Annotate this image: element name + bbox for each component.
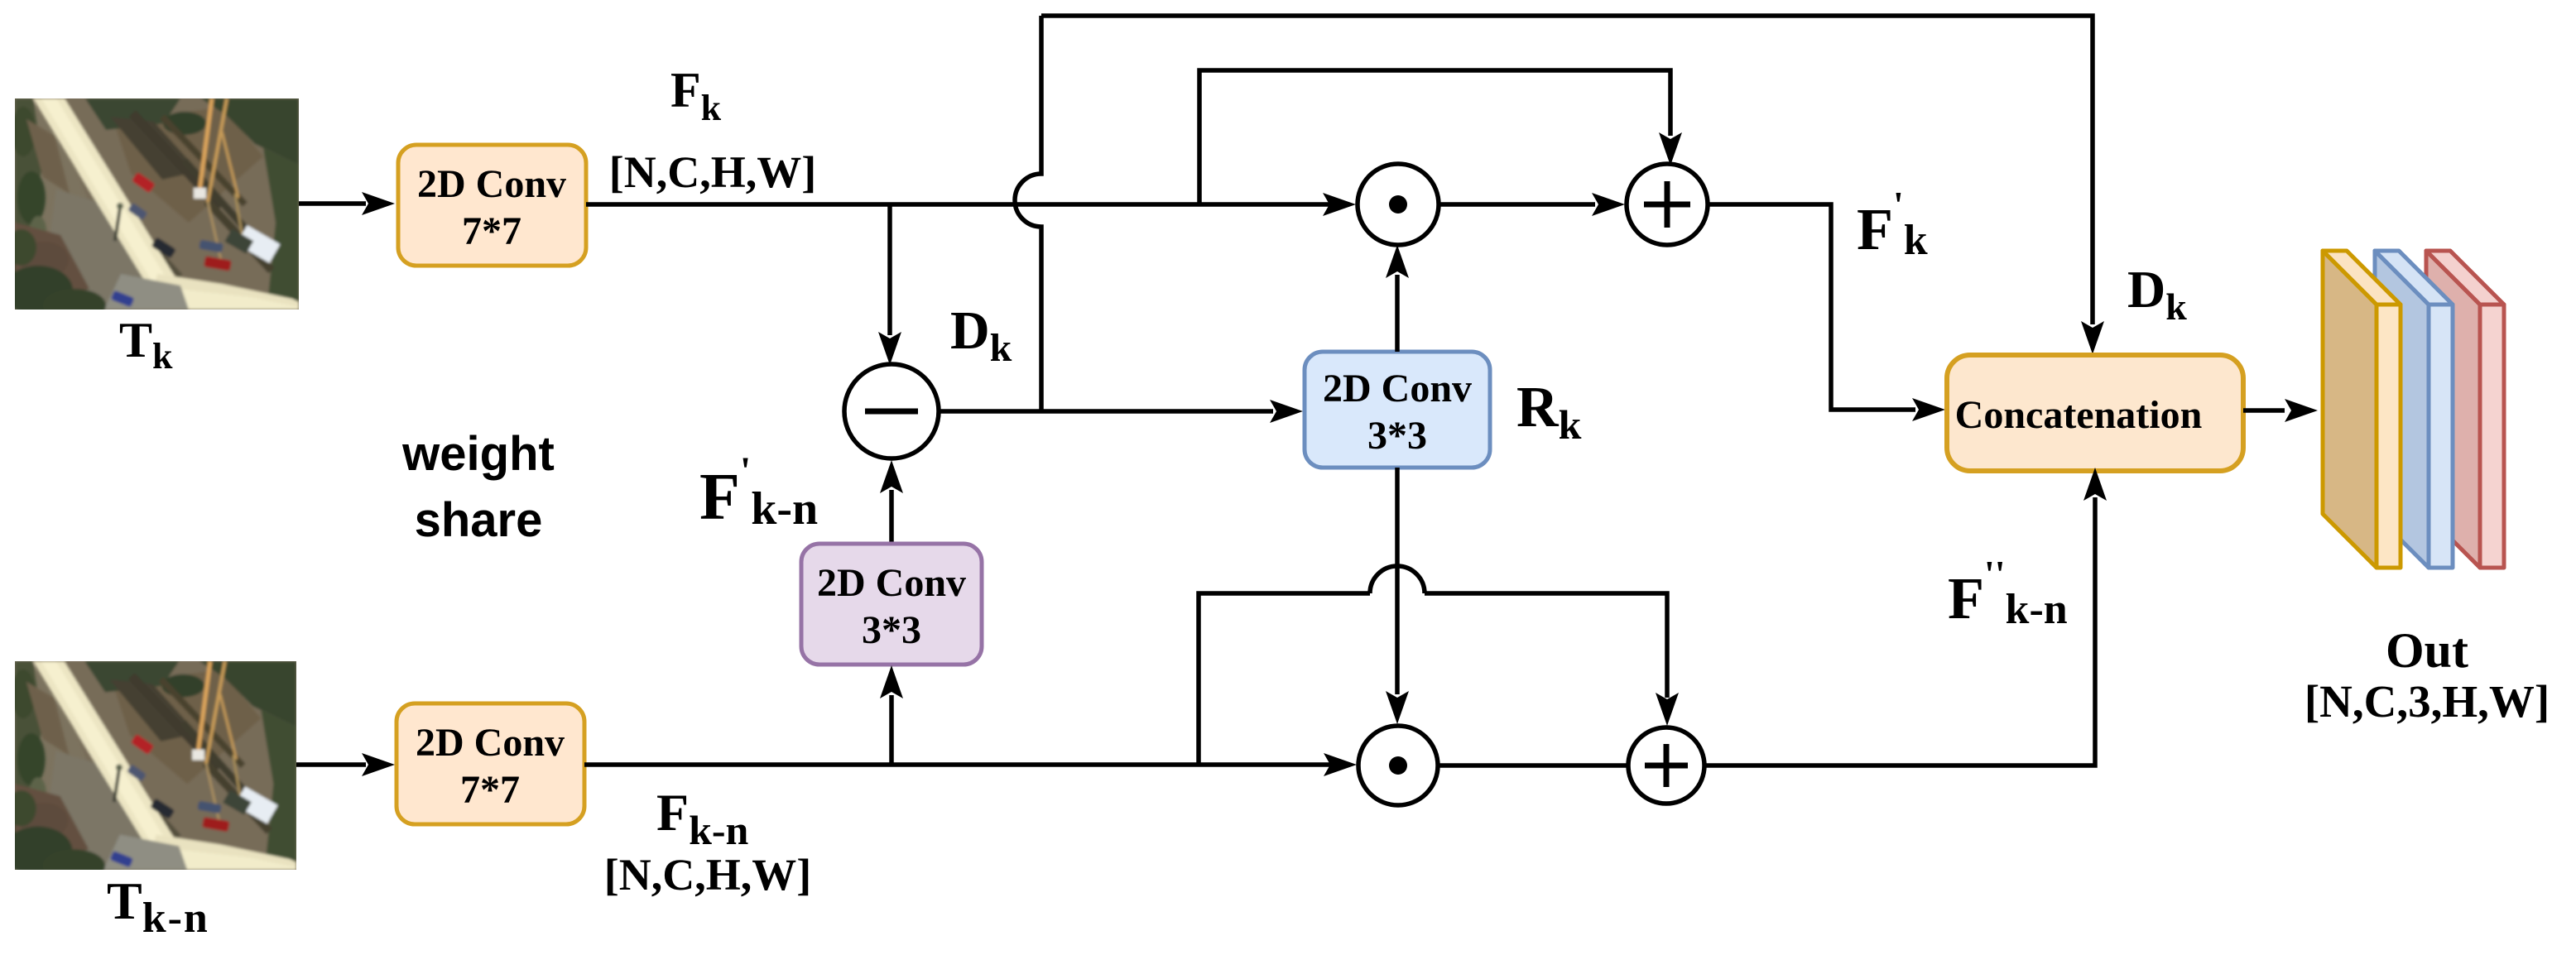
- svg-text:share: share: [415, 493, 543, 547]
- concatenation box: [1947, 355, 2243, 471]
- svg-text:[N,C,3,H,W]: [N,C,3,H,W]: [2304, 676, 2550, 727]
- main wire Fk from conv top to multiply: [586, 202, 1329, 207]
- wire minus to conv3x3 blue: [939, 409, 1273, 414]
- bottom plus circle: [1628, 727, 1704, 804]
- output slab red: [2426, 251, 2504, 568]
- svg-text:[N,C,H,W]: [N,C,H,W]: [604, 850, 811, 900]
- wire multiply to plus top: [1439, 202, 1595, 207]
- wire Rk up into top multiply: [1395, 275, 1400, 352]
- wire branch down to minus: [887, 204, 892, 335]
- conv box 2D Conv 7*7 top: [398, 145, 586, 266]
- wire purple conv to minus: [889, 490, 894, 544]
- svg-text:2D Conv: 2D Conv: [817, 561, 966, 605]
- svg-text:Rk: Rk: [1516, 376, 1582, 448]
- svg-text:2D Conv: 2D Conv: [416, 721, 565, 765]
- wire Fk skip branch up and into plus: [1199, 70, 1670, 204]
- svg-text:Concatenation: Concatenation: [1955, 393, 2203, 437]
- conv box 2D Conv 7*7 bottom: [396, 703, 584, 824]
- wire Dk up with hop over main wire: [1015, 16, 1041, 411]
- bottom multiply circle: [1358, 726, 1438, 805]
- svg-text:F''k-n: F''k-n: [1948, 553, 2068, 633]
- svg-text:3*3: 3*3: [1367, 414, 1427, 458]
- svg-text:weight: weight: [401, 427, 555, 481]
- svg-text:2D Conv: 2D Conv: [417, 162, 566, 206]
- top plus circle: [1627, 164, 1708, 245]
- svg-text:F'k: F'k: [1857, 184, 1928, 264]
- main bottom wire Fk-n to bottom multiply: [584, 762, 1330, 767]
- wire F'k from plus to concatenation: [1708, 204, 1915, 410]
- svg-text:7*7: 7*7: [460, 768, 520, 812]
- bottom wire photo Tk-n to conv7x7 bottom: [296, 762, 366, 767]
- svg-text:[N,C,H,W]: [N,C,H,W]: [609, 147, 816, 197]
- svg-text:Tk-n: Tk-n: [107, 871, 209, 942]
- svg-text:F'k-n: F'k-n: [699, 449, 818, 535]
- svg-text:7*7: 7*7: [462, 209, 521, 253]
- svg-text:Fk: Fk: [670, 63, 722, 128]
- input image T_k: [3, 98, 299, 322]
- wire branch up into purple conv: [889, 695, 894, 765]
- svg-text:Dk: Dk: [2127, 260, 2187, 328]
- conv box 2D Conv 3*3 purple: [801, 544, 982, 665]
- output slab blue: [2375, 251, 2453, 568]
- wire Dk top line into concatenation: [1041, 16, 2093, 324]
- wire concatenation to output: [2243, 408, 2285, 413]
- input image T_k-n: [3, 661, 296, 882]
- wire photo Tk to conv7x7 top: [299, 201, 366, 206]
- svg-text:Tk: Tk: [119, 313, 173, 377]
- output slab orange: [2323, 251, 2401, 568]
- top multiply circle: [1358, 164, 1439, 245]
- svg-text:Out: Out: [2386, 623, 2468, 678]
- svg-text:3*3: 3*3: [862, 608, 921, 652]
- wire Fk-n skip branch with hop into bottom plus: [1199, 593, 1370, 765]
- minus circle: [844, 364, 939, 458]
- svg-text:2D Conv: 2D Conv: [1323, 367, 1472, 410]
- wire Rk down into bottom multiply: [1395, 468, 1400, 694]
- wire bottom multiply to bottom plus: [1438, 763, 1628, 768]
- wire F''k-n from bottom plus to concatenation: [1704, 497, 2095, 765]
- svg-text:Fk-n: Fk-n: [656, 783, 749, 853]
- conv box 2D Conv 3*3 blue: [1305, 352, 1490, 468]
- svg-text:Dk: Dk: [950, 300, 1012, 370]
